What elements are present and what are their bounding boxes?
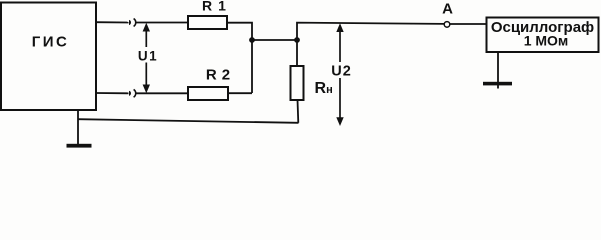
junction node B [249, 37, 255, 43]
wire node C up and right to node A [297, 23, 444, 66]
connector X1 (top, plug and socket) [129, 19, 136, 27]
connector X2 (bottom, plug and socket) [129, 89, 136, 97]
resistor Rн (load) [291, 66, 304, 100]
ground (oscilloscope) [483, 82, 512, 86]
junction node C [294, 37, 300, 43]
wire R1 to corner node [227, 23, 252, 93]
wire R2 to corner node [228, 92, 252, 94]
wire bottom output from ГИС [96, 92, 129, 94]
wire bridge node B to node C [252, 39, 297, 41]
wire connector X2 to R2 [137, 92, 189, 94]
node A terminal [444, 22, 450, 28]
wire connector X1 to R1 [137, 22, 189, 24]
svg-text:Rн: Rн [315, 80, 333, 97]
svg-text:ГИС: ГИС [32, 34, 70, 51]
wire ГИС ground lead [77, 110, 79, 145]
wire oscilloscope ground lead [497, 52, 499, 89]
resistor R2 [188, 87, 228, 100]
wire Rн bottom lead [297, 100, 300, 123]
voltage arrow U1 (double-headed) [143, 23, 150, 93]
svg-text:R2: R2 [206, 67, 235, 84]
wire bottom return [78, 119, 299, 123]
svg-text:R1: R1 [202, 0, 232, 13]
svg-text:U1: U1 [138, 49, 158, 64]
svg-text:A: A [442, 0, 453, 17]
resistor R1 [188, 16, 227, 29]
ground (ГИС) [67, 144, 92, 148]
svg-text:1 МОм: 1 МОм [524, 33, 569, 49]
voltage arrow U2 (double-headed) [336, 23, 343, 126]
svg-text:U2: U2 [331, 64, 352, 80]
wire node A to oscilloscope [450, 23, 486, 25]
block ГИС (signal generator) [1, 3, 96, 111]
block Осциллограф (oscilloscope) [487, 18, 599, 53]
wire top output from ГИС [96, 21, 129, 23]
